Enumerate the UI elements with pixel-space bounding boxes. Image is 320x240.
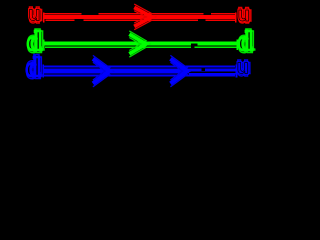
label d left (blue) <box>26 50 43 85</box>
label u right (blue) <box>237 54 252 81</box>
svg-text:u: u <box>237 57 249 79</box>
quark line u (red): left end cap <box>43 12 45 22</box>
blue core hollow split (right stretch) <box>189 72 235 73</box>
label d right (green) <box>238 24 255 59</box>
label u left (red) <box>28 1 43 28</box>
quark line d (green, middle): core <box>43 42 237 46</box>
arrow 1 on blue line <box>93 55 113 86</box>
quark line d->u (blue, bottom): echo top <box>44 66 235 68</box>
svg-text:u: u <box>28 4 40 26</box>
svg-text:d: d <box>238 26 253 56</box>
quark line u (red, top): echo bottom <box>45 20 235 21</box>
arrow 2 on blue line <box>170 55 190 86</box>
red echo gap notch 3 (top echo) <box>203 13 210 15</box>
quark line blue: left end cap <box>43 65 44 78</box>
blue dark blob on core <box>202 69 205 71</box>
label u right (red) <box>238 1 253 28</box>
quark line d->u (blue, bottom): echo bottom <box>44 75 235 77</box>
quark line d (green, middle): echo bottom <box>45 46 237 47</box>
label d left (green) <box>27 24 44 59</box>
red echo gap notch 4 (bottom echo) <box>198 19 205 21</box>
red echo gap notch 1 (top echo) <box>82 13 99 15</box>
arrow on red line <box>134 4 155 30</box>
green black notch on core <box>191 44 198 47</box>
quark line d (green): left end cap <box>43 39 45 49</box>
blue lower sub-band in hollow stretch <box>189 73 235 75</box>
arrow on green line <box>129 31 149 57</box>
quark line u (red, top): echo top <box>45 13 236 14</box>
quark line u (red): right end cap <box>235 12 236 22</box>
quark line d->u (blue, bottom): core <box>43 69 235 74</box>
quark line d (green): right end cap <box>237 39 239 49</box>
svg-text:d: d <box>26 52 41 82</box>
svg-text:u: u <box>238 4 250 26</box>
red echo gap notch 2 (bottom echo) <box>75 19 84 21</box>
quark line blue: right end cap <box>235 65 237 78</box>
green echo gap notch <box>191 46 194 48</box>
quark line u (red, top): core <box>43 15 236 19</box>
